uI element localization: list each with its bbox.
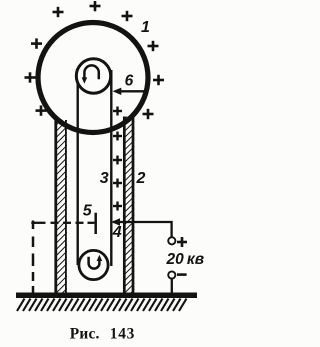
minus sign at terminal [177, 273, 187, 276]
lower pulley [79, 250, 108, 279]
comb 6 arrow [113, 88, 147, 95]
lower pulley rotation arrow [89, 255, 103, 269]
svg-text:6: 6 [125, 73, 134, 90]
ground base line [16, 292, 197, 298]
plus charges on belt [113, 107, 122, 211]
svg-text:20 кв: 20 кв [166, 251, 205, 268]
insulating column right (hatched) [123, 117, 134, 294]
minus terminal [168, 271, 175, 278]
svg-text:4: 4 [112, 224, 122, 241]
svg-text:5: 5 [83, 202, 93, 219]
upper pulley rotation arrow [82, 65, 99, 83]
sphere (conductor 1) [38, 23, 148, 133]
plus charges around sphere [25, 1, 165, 119]
svg-text:143: 143 [110, 325, 135, 342]
ground hatching [17, 299, 187, 311]
belt left side [76, 70, 78, 265]
svg-text:Рис.: Рис. [70, 325, 100, 342]
belt right side [110, 70, 112, 266]
svg-text:2: 2 [136, 170, 146, 187]
comb electrode 5 (tick) [94, 213, 97, 234]
plus terminal [168, 237, 175, 244]
plus sign at terminal [177, 237, 187, 247]
upper pulley [76, 59, 110, 93]
svg-text:1: 1 [141, 19, 150, 36]
comb 4 arrow and wire to + terminal [111, 218, 171, 237]
wire minus terminal to ground [171, 279, 173, 294]
dashed ground wire horizontal [31, 222, 94, 224]
dashed ground wire vertical [32, 221, 35, 293]
insulating column left (hatched) [55, 120, 67, 294]
svg-text:3: 3 [100, 170, 109, 187]
